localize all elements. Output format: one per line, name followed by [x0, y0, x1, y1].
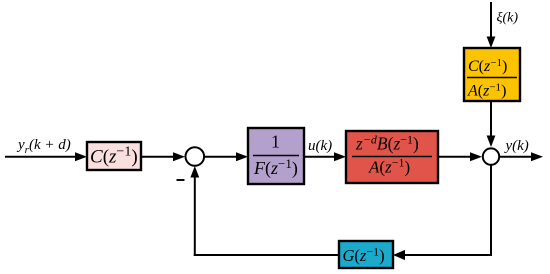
- svg-text:yr(k + d): yr(k + d): [16, 137, 71, 156]
- svg-text:1: 1: [271, 132, 280, 152]
- svg-text:C(z−1): C(z−1): [90, 145, 138, 168]
- svg-text:u(k): u(k): [308, 138, 332, 154]
- svg-text:A(z−1): A(z−1): [368, 156, 410, 177]
- svg-text:A(z−1): A(z−1): [467, 82, 506, 100]
- svg-text:F(z−1): F(z−1): [253, 156, 298, 179]
- svg-text:ξ(k): ξ(k): [497, 11, 519, 26]
- svg-text:y(k): y(k): [504, 138, 529, 154]
- svg-text:C(z−1): C(z−1): [468, 57, 507, 75]
- svg-text:G(z−1): G(z−1): [343, 245, 385, 266]
